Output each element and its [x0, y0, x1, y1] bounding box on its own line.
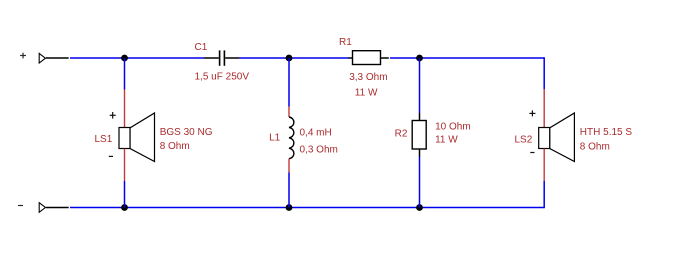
wire (terminal to bottom net, black)	[46, 207, 69, 209]
node F junction	[416, 204, 423, 211]
input terminal - (bottom left)	[18, 205, 23, 207]
node C junction	[416, 55, 423, 62]
wire (L1 branch, bottom blue)	[288, 173, 290, 208]
wire (bottom net)	[70, 207, 544, 209]
wire (top net, C1 to R1)	[239, 57, 349, 59]
node D junction	[121, 204, 128, 211]
inductor L1 pin top (red)	[288, 107, 290, 118]
wire (top net, left segment)	[70, 57, 204, 59]
resistor R1	[339, 37, 389, 99]
wire (terminal to node, black)	[46, 57, 69, 59]
wire (LS1 branch, top blue)	[124, 58, 126, 90]
svg-text:C1: C1	[195, 42, 208, 53]
capacitor C1	[195, 42, 250, 83]
svg-text:R2: R2	[395, 129, 408, 140]
inductor L1	[269, 117, 338, 159]
svg-text:0,4 mH: 0,4 mH	[300, 128, 332, 139]
svg-text:11 W: 11 W	[435, 134, 458, 145]
svg-text:10 Ohm: 10 Ohm	[435, 121, 471, 132]
speaker LS2 pin top (red)	[543, 89, 545, 128]
speaker LS1 pin bottom (red)	[124, 149, 126, 182]
svg-text:11 W: 11 W	[355, 88, 378, 99]
wire (R2 branch, top blue)	[419, 58, 421, 113]
terminal symbol (top)	[39, 53, 45, 63]
svg-text:8 Ohm: 8 Ohm	[160, 141, 190, 152]
wire (R2 branch, bottom blue)	[419, 157, 421, 208]
speaker LS1	[95, 112, 213, 162]
wire (L1 branch, top blue)	[288, 58, 290, 107]
svg-text:R1: R1	[339, 37, 352, 48]
inductor L1 pin bottom (red)	[288, 159, 290, 173]
svg-text:LS2: LS2	[515, 134, 533, 145]
node E junction	[286, 204, 293, 211]
svg-text:8 Ohm: 8 Ohm	[580, 141, 610, 152]
svg-text:0,3 Ohm: 0,3 Ohm	[300, 145, 338, 156]
wire (top net, R1 to node C)	[390, 57, 544, 59]
svg-text:BGS 30 NG: BGS 30 NG	[160, 127, 213, 138]
node B junction	[286, 55, 293, 62]
node A junction	[121, 55, 128, 62]
wire (right vertical, top blue)	[543, 57, 545, 89]
speaker LS2 pin bottom (red)	[543, 149, 545, 182]
svg-text:HTH 5.15 S: HTH 5.15 S	[580, 127, 633, 138]
terminal symbol (bottom)	[39, 203, 45, 213]
svg-text:3,3 Ohm: 3,3 Ohm	[349, 72, 387, 83]
speaker LS2	[515, 110, 633, 161]
resistor R2	[395, 113, 471, 157]
svg-text:L1: L1	[269, 133, 281, 144]
svg-text:LS1: LS1	[95, 134, 113, 145]
svg-text:1,5 uF 250V: 1,5 uF 250V	[195, 72, 250, 83]
input terminal + (top left)	[20, 53, 26, 59]
wire (LS1 branch, bottom blue)	[124, 181, 126, 208]
wire (right vertical, bottom blue)	[543, 181, 545, 208]
speaker LS1 pin top (red)	[124, 90, 126, 128]
